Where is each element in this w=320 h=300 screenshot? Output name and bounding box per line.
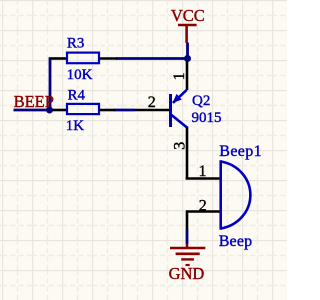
collector line — [172, 115, 188, 128]
pin 1 of buzzer — [186, 177, 220, 180]
pin 2 of buzzer — [186, 210, 220, 213]
wire: vertical from BEEP junction up to R3 row — [49, 57, 52, 110]
body of R3 — [67, 53, 99, 64]
svg-text:R4: R4 — [68, 88, 86, 104]
node: junction at VCC — [184, 55, 191, 62]
body of R4 — [67, 104, 99, 114]
buzzer Beep1 — [186, 143, 262, 250]
wire: buzzer pin2 down to GND — [186, 229, 189, 244]
wire: R3 right to VCC junction — [116, 57, 189, 60]
node: junction at BEEP — [46, 107, 53, 114]
resistor R4 — [52, 88, 115, 135]
svg-text:3: 3 — [172, 142, 189, 150]
wire: R4 right to Q2 base — [114, 109, 135, 112]
power port VCC — [178, 25, 197, 43]
emitter line — [173, 90, 187, 103]
pin 1 of R4 (left) — [52, 109, 66, 112]
svg-text:GND: GND — [169, 264, 205, 283]
body: D shape flat edge — [219, 160, 222, 230]
resistor R3 — [51, 36, 118, 83]
base bar — [169, 94, 172, 127]
svg-text:2: 2 — [148, 94, 156, 111]
svg-text:R3: R3 — [67, 36, 85, 52]
wire: vertical up to VCC stem — [186, 43, 189, 59]
pin 2 of R4 (right) — [100, 109, 115, 112]
svg-text:2: 2 — [199, 197, 207, 214]
svg-text:1: 1 — [171, 72, 188, 80]
transistor Q2 — [135, 61, 222, 180]
svg-text:BEEP: BEEP — [14, 92, 54, 111]
power port GND — [170, 244, 205, 266]
svg-text:Beep: Beep — [219, 233, 253, 250]
pin 2 (base) horizontal — [135, 109, 170, 112]
emitter arrow (PNP) — [172, 94, 182, 103]
svg-text:9015: 9015 — [192, 110, 222, 126]
svg-text:Beep1: Beep1 — [219, 143, 262, 160]
svg-text:Q2: Q2 — [192, 93, 210, 109]
svg-text:VCC: VCC — [171, 6, 205, 25]
svg-text:1K: 1K — [66, 118, 85, 134]
pin 2 of R3 (right) — [100, 57, 117, 60]
wire: BEEP net horizontal — [14, 109, 50, 112]
pin 1 (emitter) vertical — [186, 61, 189, 91]
pin 3 (collector) vertical — [186, 127, 189, 180]
svg-text:1: 1 — [199, 163, 207, 180]
svg-text:10K: 10K — [67, 67, 93, 83]
body: D shape arc — [221, 162, 251, 229]
pin 1 of R3 (left) — [51, 57, 67, 60]
